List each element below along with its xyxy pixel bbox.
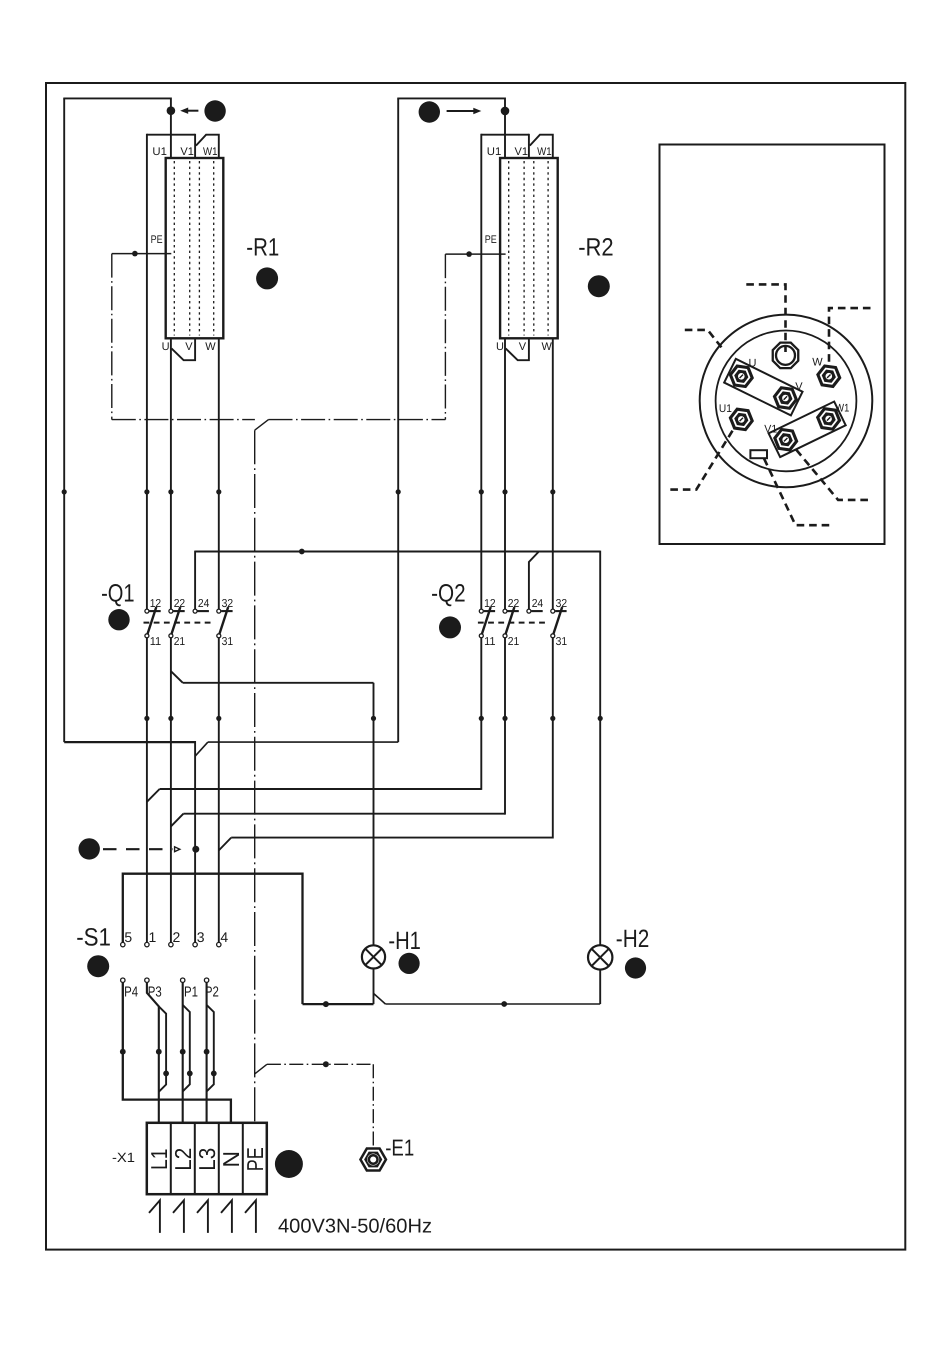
S1 contact terminal 5 <box>121 942 125 946</box>
PE chassis rail jog <box>255 420 269 431</box>
PE pigtail R2: link to heater <box>445 253 505 255</box>
wire: P3 parallel conductor <box>159 1006 166 1091</box>
svg-text:U1: U1 <box>152 146 167 158</box>
contact terminal 11 <box>479 634 483 638</box>
svg-text:31: 31 <box>556 636 568 648</box>
lamp H1 <box>362 945 385 968</box>
node: P3 wire markers <box>156 1049 162 1055</box>
svg-text:-Q1: -Q1 <box>101 580 135 608</box>
contact blade 21-22 <box>172 607 181 634</box>
wire: Q2-31 drop <box>552 638 554 839</box>
wire: P4 to X1-N <box>123 982 231 1122</box>
contact terminal 22 <box>503 609 507 613</box>
X1 outgoing core 4 <box>221 1200 232 1233</box>
PE pigtail R1: link to heater <box>112 253 172 255</box>
balloon: R2 feed reference <box>419 101 440 122</box>
resistor R2 heater body <box>500 158 558 338</box>
connector stud W <box>816 364 841 388</box>
svg-text:W: W <box>812 357 823 369</box>
svg-text:-H1: -H1 <box>388 927 421 955</box>
wire marker dots (lower row) <box>144 716 149 721</box>
contact terminal 31 <box>217 634 221 638</box>
wire: H1 feed horizontal <box>183 682 374 684</box>
svg-text:3: 3 <box>197 929 205 945</box>
svg-text:V: V <box>185 341 193 353</box>
resistor R1 element hatching <box>173 161 175 336</box>
wire: Q1-31 branch chamfer (net 31) <box>219 838 231 851</box>
wire: H2 bottom lead <box>599 970 601 1004</box>
wire: Q1-11 branch chamfer <box>147 789 160 802</box>
wire: lamp feed horizontal (S1-5 to H1) <box>303 1003 374 1005</box>
leader from U1 stud (dashed) <box>670 431 733 490</box>
contact blade 31-32 <box>553 607 562 634</box>
svg-text:P3: P3 <box>148 984 162 1000</box>
balloon: Q1 reference <box>108 609 129 630</box>
balloon: H2 reference <box>625 957 646 978</box>
svg-text:U: U <box>162 341 170 353</box>
mechanical linkage (dashed) <box>478 622 549 624</box>
leader from strain rib (dashed) <box>764 458 831 525</box>
S1 contact terminal P2 <box>204 978 208 982</box>
PE chassis lead R1 (dash-dot) <box>111 254 113 420</box>
svg-text:5: 5 <box>124 929 132 945</box>
wire: H1 bottom lead <box>373 969 375 1005</box>
contact blade 11-12 <box>148 607 157 634</box>
X1 outgoing core 1 <box>149 1200 160 1233</box>
wire: R1 U1 drop <box>170 98 172 159</box>
R2 terminal box U1/V1 <box>481 134 529 136</box>
svg-text:V1: V1 <box>515 146 529 158</box>
contact terminal 12 <box>145 609 149 613</box>
balloon: H1 reference <box>399 953 420 974</box>
contact terminal 12 <box>479 609 483 613</box>
svg-text:L3: L3 <box>194 1148 220 1171</box>
svg-text:P1: P1 <box>184 984 198 1000</box>
node: PE wire marker <box>323 1061 329 1067</box>
contact terminal 11 <box>145 634 149 638</box>
svg-text:PE: PE <box>485 234 497 246</box>
balloon: R1 reference <box>256 267 278 289</box>
svg-text:1: 1 <box>149 929 157 945</box>
S1 contact terminal 3 <box>193 942 197 946</box>
node: net-24 wire marker <box>299 549 305 555</box>
svg-text:U: U <box>496 341 504 353</box>
X1 outgoing core 3 <box>197 1200 208 1233</box>
svg-text:V1: V1 <box>764 424 777 436</box>
node: P4 wire marker <box>120 1049 126 1055</box>
wire: R2 U bottom lead <box>504 338 506 609</box>
svg-text:31: 31 <box>222 636 234 648</box>
contact blade 21-22 <box>506 607 515 634</box>
svg-text:P4: P4 <box>124 984 138 1000</box>
wire: S1-3 drop <box>194 741 196 943</box>
PE chassis rail horizontal (dash-dot) <box>112 419 255 421</box>
wire: Q2-21 drop <box>504 638 506 815</box>
contact blade 11-12 <box>482 607 491 634</box>
wire: Q2-11 drop <box>480 638 482 790</box>
contact terminal 21 <box>169 634 173 638</box>
contact terminal 24 <box>527 609 531 613</box>
wire: H2 feed drop <box>599 551 601 946</box>
svg-text:U: U <box>749 358 757 370</box>
contact blade 31-32 <box>219 607 228 634</box>
balloon: Q2 reference <box>439 616 461 638</box>
wire: net 11 horizontal to Q2-11 <box>160 788 482 790</box>
leader to PE stud (dashed) <box>746 284 785 352</box>
node: R1 feed junction <box>167 106 176 115</box>
wire: net 21 horizontal to Q2-21 <box>183 813 505 815</box>
wire: Q1-21 to S1-2 <box>170 638 172 943</box>
wire: H1 feed drop <box>373 683 375 946</box>
contact terminal 21 <box>503 634 507 638</box>
wire: L1 feed loop vertical (node to R2) <box>397 98 399 742</box>
R1 bottom V lead box <box>172 338 196 361</box>
wire: net 31 horizontal to Q2-31 <box>231 837 553 839</box>
R1 terminal box U1/V1 <box>147 134 195 136</box>
svg-text:11: 11 <box>484 636 496 648</box>
lamp H2 <box>588 945 612 969</box>
connector stud U <box>729 364 754 388</box>
wire: feed branch horizontal to R2 loop <box>208 741 398 743</box>
contact terminal 22 <box>169 609 173 613</box>
S1 contact terminal 1 <box>145 942 149 946</box>
R1 terminal box W1 (notched) <box>196 135 219 159</box>
leader to housing left (dashed) <box>685 330 722 348</box>
wire: Q1-21 branch chamfer to H1 <box>171 671 183 683</box>
node: lamp feed wire marker <box>501 1001 507 1007</box>
svg-text:21: 21 <box>508 636 520 648</box>
node: P1 wire markers <box>180 1049 186 1055</box>
svg-text:-R1: -R1 <box>246 234 279 262</box>
terminal block X1 body <box>147 1123 267 1194</box>
arrow: R1 feed pointer <box>186 110 198 112</box>
wire marker dots (upper row) <box>62 489 67 494</box>
node: P2 wire markers <box>204 1049 210 1055</box>
svg-text:V1: V1 <box>180 146 194 158</box>
wire: P1 to X1-L2 <box>182 982 184 1122</box>
wire: feed branch chamfer <box>195 742 208 756</box>
svg-text:V: V <box>795 381 803 393</box>
svg-text:W1: W1 <box>537 146 552 158</box>
node: pointer target on S1-3 wire <box>192 846 199 853</box>
contact terminal 32 <box>551 609 555 613</box>
connector stud V1 <box>773 428 798 452</box>
wire: Q1-21 branch chamfer (net 21) <box>171 814 184 827</box>
balloon: X1 reference <box>275 1150 303 1178</box>
detail view enclosure <box>660 145 885 545</box>
balloon: wire reference (dashed pointer) <box>79 838 100 859</box>
node: R2 PE junction <box>466 251 472 257</box>
svg-text:PE: PE <box>151 234 163 246</box>
node: R1 PE junction <box>132 251 138 257</box>
wire: S1-5 riser and top rail <box>123 874 303 1004</box>
svg-text:L1: L1 <box>146 1149 172 1171</box>
contact terminal 32 <box>217 609 221 613</box>
wire: contactor NO-24 net horizontal <box>195 551 600 553</box>
wire: P3 to X1-L1 <box>147 982 159 1122</box>
contact terminal 24 <box>193 609 197 613</box>
connector outer ring <box>700 315 873 488</box>
contact terminal 31 <box>551 634 555 638</box>
wire: R2 U1 drop <box>504 98 506 159</box>
S1 contact terminal P3 <box>145 978 149 982</box>
PE chassis lead R2 (dash-dot) <box>444 254 446 420</box>
connector strain rib <box>750 450 767 458</box>
svg-text:W1: W1 <box>203 146 218 158</box>
leader from V1-W1 link (dashed) <box>796 450 869 500</box>
svg-text:4: 4 <box>220 929 228 945</box>
X1 outgoing core 5 <box>245 1200 256 1233</box>
connector stud W1 <box>816 407 841 431</box>
svg-text:W: W <box>542 341 553 353</box>
svg-text:24: 24 <box>532 598 544 610</box>
svg-text:PE: PE <box>242 1147 268 1171</box>
svg-text:-H2: -H2 <box>616 925 650 953</box>
svg-text:-R2: -R2 <box>578 234 614 262</box>
node: lamp feed junction <box>323 1001 329 1007</box>
balloon: R1 feed reference <box>204 100 225 121</box>
wire: P2 parallel conductor <box>207 1005 214 1092</box>
wire: P2 to X1-L3 <box>206 982 208 1122</box>
PE chassis rail horizontal right part (dash-dot) <box>269 419 446 421</box>
wire: Q1-11 to S1-1 <box>146 638 148 943</box>
terminal block X1 dividers <box>170 1123 172 1194</box>
dashed pointer line <box>103 848 173 850</box>
earth stud E1 <box>359 1147 387 1172</box>
PE lead horizontal (dash-dot) <box>267 1063 373 1065</box>
balloon: S1 reference <box>87 955 109 977</box>
wire: P1 parallel conductor <box>183 1005 190 1092</box>
S1 contact terminal 2 <box>169 942 173 946</box>
wire: R1 PE conductor (left outline down to contactor) <box>146 134 148 609</box>
PE lead to E1 (dash-dot vertical) <box>372 1064 374 1146</box>
svg-text:W1: W1 <box>835 402 849 414</box>
svg-text:N: N <box>218 1151 244 1168</box>
arrow: R2 feed pointer <box>447 110 478 112</box>
X1 outgoing core 2 <box>173 1200 184 1233</box>
PE lead jog <box>255 1064 267 1074</box>
svg-text:21: 21 <box>174 636 186 648</box>
wire: lamp feed horizontal (H1 to H2) <box>385 1003 600 1005</box>
svg-text:-X1: -X1 <box>112 1150 135 1165</box>
svg-text:-E1: -E1 <box>385 1134 414 1160</box>
wire: feed to R1 terminals horizontal <box>63 97 171 99</box>
wire: L1 feed loop left vertical (node to R1) <box>63 98 65 742</box>
svg-text:W: W <box>205 341 216 353</box>
connector stud U1 <box>729 408 754 432</box>
svg-text:U1: U1 <box>719 403 732 415</box>
wire: R1 U bottom lead <box>170 338 172 609</box>
balloon: R2 reference <box>588 275 610 297</box>
wire: R1 W bottom lead <box>218 338 220 609</box>
S1 contact terminal P4 <box>121 978 125 982</box>
pointer arrowhead <box>175 847 180 852</box>
resistor R2 element hatching <box>508 161 510 336</box>
wire: feed return horizontal (thick) <box>64 741 195 743</box>
svg-text:24: 24 <box>198 598 210 610</box>
svg-text:L2: L2 <box>170 1148 196 1171</box>
svg-text:V: V <box>519 341 527 353</box>
connector stud V <box>773 386 798 410</box>
svg-text:400V3N-50/60Hz: 400V3N-50/60Hz <box>278 1216 432 1238</box>
mechanical linkage (dashed) <box>144 622 215 624</box>
svg-text:U1: U1 <box>487 146 502 158</box>
S1 contact terminal 4 <box>217 942 221 946</box>
wire: feed to R2 terminals horizontal <box>397 97 505 99</box>
svg-text:11: 11 <box>150 636 162 648</box>
wire: Q2-24 jog <box>529 552 539 610</box>
S1 contact terminal P1 <box>181 978 185 982</box>
svg-text:2: 2 <box>173 929 181 945</box>
link bar U-V <box>724 359 802 416</box>
svg-text:-Q2: -Q2 <box>431 580 466 608</box>
connector PE stud <box>773 343 799 369</box>
wire: Q1-24 drop <box>194 551 196 610</box>
svg-text:-S1: -S1 <box>76 924 111 952</box>
wire: Q1-31 to S1-4 <box>218 638 220 943</box>
R2 terminal box W1 (notched) <box>530 135 553 159</box>
link bar V1-W1 <box>769 402 846 458</box>
wire: R2 PE conductor (left outline down to contactor) <box>480 134 482 609</box>
node: R2 feed junction <box>501 107 510 116</box>
connector inner ring <box>716 331 857 472</box>
wire: R2 W bottom lead <box>552 338 554 609</box>
wire: H1 bottom chamfer <box>374 993 386 1004</box>
PE chassis drop to X1 (dash-dot) <box>254 430 256 1122</box>
R2 bottom V lead box <box>506 338 529 361</box>
resistor R1 heater body <box>166 158 224 338</box>
leader to W stud (dashed) <box>829 308 871 365</box>
